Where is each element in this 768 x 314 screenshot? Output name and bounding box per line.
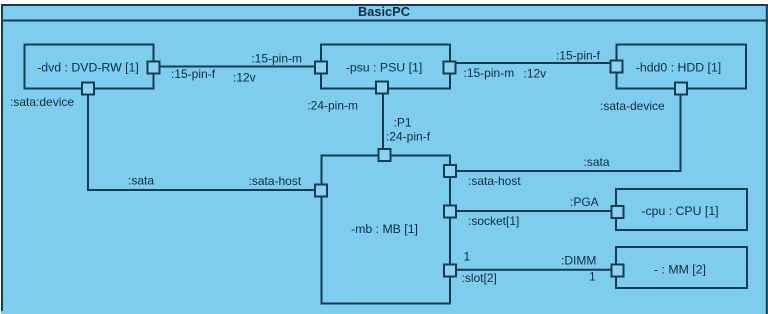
port dvd sata:device <box>82 83 94 95</box>
svg-text::24-pin-m: :24-pin-m <box>307 99 358 113</box>
svg-text:- : MM [2]: - : MM [2] <box>654 262 706 276</box>
svg-text::15-pin-m: :15-pin-m <box>251 52 302 66</box>
wire W4 dvd-mb <box>88 95 314 190</box>
port psu 24-pin-m <box>376 82 388 94</box>
wire W6 mb-cpu <box>457 210 611 212</box>
svg-text::P1: :P1 <box>394 115 412 129</box>
svg-text::15-pin-f: :15-pin-f <box>171 67 216 81</box>
svg-text::PGA: :PGA <box>570 195 599 209</box>
component MM <box>616 247 747 288</box>
svg-text::24-pin-f: :24-pin-f <box>386 130 431 144</box>
component PSU <box>321 45 450 89</box>
component DVD-RW <box>25 45 154 89</box>
port psu 15-pin-m left <box>315 62 327 74</box>
port mm DIMM <box>612 265 624 277</box>
component MB <box>322 156 451 304</box>
wire W7 mb-mm <box>457 269 611 271</box>
component HDD <box>617 45 747 89</box>
svg-text::socket[1]: :socket[1] <box>468 214 519 228</box>
svg-text::slot[2]: :slot[2] <box>462 271 497 285</box>
svg-text::sata: :sata <box>584 155 610 169</box>
svg-text:-dvd : DVD-RW [1]: -dvd : DVD-RW [1] <box>37 60 139 74</box>
port mb 24-pin-f P1 <box>379 149 391 161</box>
svg-text::15-pin-m: :15-pin-m <box>464 66 515 80</box>
port mb sata-host left <box>315 185 327 197</box>
svg-text:1: 1 <box>589 270 596 284</box>
wire W5 hdd-mb <box>457 95 681 171</box>
svg-text::15-pin-f: :15-pin-f <box>556 49 601 63</box>
svg-text::sata-host: :sata-host <box>468 174 521 188</box>
svg-text::12v: :12v <box>524 66 547 80</box>
wire W3 psu-mb <box>382 94 384 149</box>
port cpu PGA <box>612 206 624 218</box>
svg-text::12v: :12v <box>233 70 256 84</box>
component CPU <box>616 189 747 230</box>
wire W1 dvd-psu <box>160 66 314 68</box>
port psu 15-pin-m right <box>444 62 456 74</box>
port mb sata-host right <box>444 165 456 177</box>
svg-text::sata: :sata <box>128 174 154 188</box>
svg-text:BasicPC: BasicPC <box>358 4 410 19</box>
svg-text:-hdd0 : HDD [1]: -hdd0 : HDD [1] <box>636 60 721 74</box>
svg-text::sata:device: :sata:device <box>10 95 74 109</box>
port dvd 15-pin-f <box>148 62 160 74</box>
port hdd 15-pin-f <box>611 61 623 73</box>
svg-text::DIMM: :DIMM <box>561 253 596 267</box>
svg-text::sata-device: :sata-device <box>600 99 665 113</box>
svg-text:-mb : MB [1]: -mb : MB [1] <box>351 222 418 236</box>
wire W2 psu-hdd <box>456 62 610 64</box>
svg-text::sata-host: :sata-host <box>249 174 302 188</box>
svg-text:-cpu : CPU [1]: -cpu : CPU [1] <box>641 204 718 218</box>
svg-text:-psu : PSU [1]: -psu : PSU [1] <box>346 60 423 74</box>
port mb socket <box>444 206 456 218</box>
svg-text:1: 1 <box>464 250 471 264</box>
port hdd sata-device <box>675 83 687 95</box>
port mb slot <box>444 265 456 277</box>
